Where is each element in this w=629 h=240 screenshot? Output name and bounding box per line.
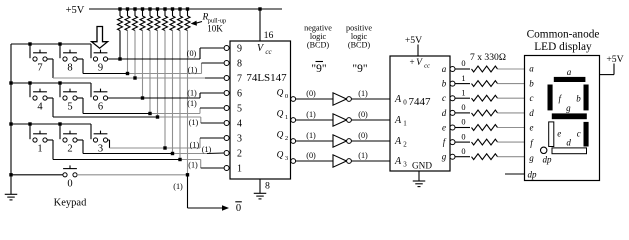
power +5V supply label (66, 5, 85, 16)
pin 8 GND wire U1 (259, 179, 261, 193)
wire drop bus to key 6 (90, 83, 92, 97)
label pin 5 U1 (237, 104, 242, 115)
svg-text:a: a (567, 67, 572, 77)
label (1) key2 b (202, 145, 212, 154)
svg-text:A: A (394, 136, 402, 147)
wire inverter 4 to A3 (351, 160, 390, 162)
pin e output bubble 7447 (450, 125, 455, 130)
wire dp stub (505, 173, 525, 175)
svg-text:5: 5 (67, 102, 72, 113)
svg-text:Common-anode: Common-anode (527, 29, 600, 41)
label pin 8 (265, 181, 270, 192)
wire key7 line (47, 59, 224, 78)
wire row bus 7-8-9 (11, 43, 91, 45)
svg-text:+5V: +5V (405, 35, 422, 46)
svg-text:b: b (529, 78, 534, 88)
pin a display label (529, 64, 534, 74)
inverter U2a (333, 93, 351, 105)
label Q2 U1 (277, 131, 289, 143)
label A1 7447 (394, 115, 407, 128)
label R pull-up 10K with arrow (191, 13, 227, 34)
svg-text:(1): (1) (187, 99, 197, 108)
resistor R8 pull-up 10K (170, 9, 175, 31)
node junction rail/pin16 (258, 7, 261, 10)
svg-text:7447: 7447 (409, 96, 432, 108)
segment e bar (off) (549, 122, 554, 147)
pin 3 input bubble U1 (224, 136, 229, 141)
svg-text:(1): (1) (187, 89, 197, 98)
svg-text:9: 9 (98, 63, 103, 74)
node junction R10/key0 (186, 173, 189, 176)
switch key 3 (93, 131, 107, 155)
label (0) inverter 3 output (358, 131, 368, 140)
svg-text:0: 0 (67, 178, 72, 189)
svg-text:8: 8 (265, 181, 270, 192)
pin 2 input bubble U1 (224, 151, 229, 156)
label (0) inverter 1 input (306, 89, 316, 98)
switch key 5 (63, 89, 77, 113)
pin 6 input bubble U1 (224, 91, 229, 96)
svg-text:4: 4 (237, 119, 242, 130)
wire resistor to display d (498, 112, 525, 114)
wire keypad left bus (10, 44, 12, 194)
pin f output bubble 7447 (450, 140, 455, 145)
node junction R1/key9 (118, 57, 121, 60)
svg-text:2: 2 (67, 144, 72, 155)
svg-text:d: d (529, 108, 534, 118)
pin Q2 output bubble U1 (291, 139, 296, 144)
label Q3 U1 (277, 151, 289, 163)
wire key9 line (108, 48, 224, 59)
svg-text:8: 8 (67, 63, 72, 74)
label segment b 7447 (442, 79, 447, 89)
label e segment (557, 129, 561, 139)
resistor R9 pull-up 10K (178, 9, 183, 31)
svg-text:e: e (557, 129, 561, 139)
svg-text:5: 5 (237, 104, 242, 115)
switch key 6 (93, 89, 107, 113)
node bus dot row123 col1 (28, 122, 31, 125)
svg-text:LED display: LED display (534, 41, 592, 53)
label pin 4 U1 (237, 119, 242, 130)
resistor R2 pull-up 10K (125, 9, 130, 31)
pin 8 input bubble U1 (224, 61, 229, 66)
segment g bar (552, 113, 587, 119)
node junction rail/R8 (171, 7, 174, 10)
node junction R5/key5 (148, 112, 151, 115)
node bus dot row456 col5 (58, 81, 61, 84)
label quoted 9-bar (311, 62, 326, 76)
svg-text:0: 0 (461, 118, 465, 127)
svg-text:7: 7 (37, 63, 42, 74)
label (1) key4 (189, 118, 199, 127)
resistor R5 pull-up 10K (148, 9, 153, 31)
wire column from R9 to key line (179, 31, 181, 160)
label 74LS147 (246, 72, 287, 84)
label (1) inverter 3 input (306, 131, 316, 140)
label (1) inverter 4 output (358, 151, 368, 160)
wire inverter 3 to A2 (351, 140, 390, 142)
ground U1 (254, 193, 267, 199)
pin 7 input bubble U1 (224, 76, 229, 81)
svg-text:(1): (1) (358, 89, 368, 98)
label segment a 7447 (442, 64, 447, 74)
wire drop bus to key 7 (29, 44, 31, 58)
resistor 330 segment d (472, 110, 498, 116)
svg-text:6: 6 (98, 102, 103, 113)
svg-text:b: b (576, 94, 581, 104)
svg-text:d: d (442, 108, 447, 118)
svg-text:A: A (394, 94, 402, 105)
inverter U2b (333, 114, 351, 126)
svg-text:(1): (1) (173, 182, 183, 191)
svg-text:2: 2 (237, 149, 242, 160)
pin a output bubble 7447 (450, 67, 455, 72)
wire column from R10 to key line (187, 31, 189, 175)
svg-text:1: 1 (37, 144, 42, 155)
svg-text:(0): (0) (187, 49, 197, 58)
label logic 1 segment c (461, 88, 465, 97)
label c segment (577, 129, 581, 139)
wire drop bus to key 1 (29, 124, 31, 139)
svg-text:e: e (530, 123, 534, 133)
svg-text:(0): (0) (306, 89, 316, 98)
svg-text:GND: GND (412, 161, 432, 171)
label Common-anode (527, 29, 600, 41)
label A3 7447 (394, 156, 407, 169)
label 7447 (409, 96, 432, 108)
svg-text:(BCD): (BCD) (348, 41, 371, 50)
pin g output bubble 7447 (450, 154, 455, 159)
wire key5 line (77, 98, 224, 114)
wire g 7447 to resistor (455, 156, 470, 158)
wire column from R5 to key line (149, 31, 151, 114)
node junction bus456/leftbus (9, 81, 12, 84)
node junction R7/key3 (163, 146, 166, 149)
pin d output bubble 7447 (450, 110, 455, 115)
label Q0 U1 (277, 89, 289, 101)
wire to 9-bar output (188, 175, 230, 211)
svg-text:7 x 330Ω: 7 x 330Ω (470, 52, 506, 63)
label segment g 7447 (442, 152, 447, 162)
svg-text:(1): (1) (189, 118, 199, 127)
node junction rail/R9 (178, 7, 181, 10)
wire f 7447 to resistor (455, 141, 470, 143)
svg-text:A: A (394, 156, 402, 167)
label (0) inverter 4 input (306, 151, 316, 160)
label d segment (566, 138, 571, 148)
wire row bus 1-2-3 (11, 123, 91, 125)
wire key6 line (108, 93, 224, 98)
label (1) key0 (173, 182, 183, 191)
label (1) key6 (187, 89, 197, 98)
wire display to +5V (600, 64, 615, 75)
label LED display (534, 41, 592, 53)
segment d bar (off) (552, 148, 587, 154)
label (0) inverter 2 output (358, 110, 368, 119)
label (1) inverter 1 output (358, 89, 368, 98)
svg-text:+5V: +5V (66, 5, 85, 16)
wire column from R7 to key line (164, 31, 166, 149)
svg-text:g: g (442, 152, 447, 162)
svg-text:(1): (1) (358, 151, 368, 160)
resistor R4 pull-up 10K (140, 9, 145, 31)
pin 5 input bubble U1 (224, 106, 229, 111)
resistor 330 segment a (472, 66, 498, 72)
pin Q0 output bubble U1 (291, 97, 296, 102)
wire drop bus to key 4 (29, 83, 31, 97)
label logic 0 segment d (461, 103, 465, 112)
label (1) key5 (187, 99, 197, 108)
wire resistor to display b (498, 83, 525, 85)
inverter U2d (333, 155, 351, 167)
node junction R9/key1 (178, 158, 181, 161)
label negative logic (BCD) (304, 24, 332, 50)
ground 7447 (413, 181, 426, 187)
node junction rail/R10 (186, 7, 189, 10)
wire key4 line (47, 98, 224, 123)
svg-text:0: 0 (236, 203, 241, 214)
node bus dot row456 col4 (28, 81, 31, 84)
label quoted 9 (352, 63, 367, 75)
wire Q3 to inverter (296, 160, 333, 162)
svg-text:1: 1 (285, 114, 288, 121)
op IC U1 74LS147 box (230, 41, 291, 179)
svg-text:(1): (1) (188, 160, 198, 169)
op IC U2 7447 box (390, 56, 450, 171)
node junction key0/leftbus (9, 173, 12, 176)
power +5V display label (606, 54, 623, 65)
segment c bar (584, 122, 589, 147)
label Vcc U1 (257, 43, 273, 56)
svg-text:g: g (529, 153, 534, 163)
label (1) key1 (188, 160, 198, 169)
svg-text:c: c (577, 129, 581, 139)
svg-text:0: 0 (461, 103, 465, 112)
svg-text:(1): (1) (306, 110, 316, 119)
node junction rail/R3 (133, 7, 136, 10)
svg-text:16: 16 (264, 30, 274, 41)
pressed key arrow (92, 27, 108, 49)
label logic 0 segment e (461, 118, 465, 127)
svg-text:cc: cc (265, 48, 272, 56)
switch key 7 (33, 50, 47, 74)
label a segment (567, 67, 572, 77)
wire drop bus to key 3 (90, 124, 92, 139)
resistor 330 segment c (472, 95, 498, 101)
ground (keypad) (5, 194, 18, 200)
svg-text:0: 0 (461, 132, 465, 141)
node bus dot row789 col8 (58, 42, 61, 45)
node junction R6/key4 (156, 115, 159, 118)
label Q1 U1 (277, 110, 289, 122)
node bus dot row123 col2 (58, 122, 61, 125)
label GND 7447 (412, 161, 432, 171)
node junction rail/R6 (156, 7, 159, 10)
resistor R7 pull-up 10K (163, 9, 168, 31)
svg-text:d: d (566, 138, 571, 148)
node junction R8/key2 (171, 152, 174, 155)
label pin 1 U1 (237, 164, 242, 175)
label segment c 7447 (442, 93, 446, 103)
svg-text:74LS147: 74LS147 (246, 72, 287, 84)
wire column from R8 to key line (172, 31, 174, 154)
svg-text:dp: dp (543, 155, 553, 165)
svg-text:cc: cc (424, 63, 430, 70)
pin f display label (530, 138, 534, 148)
node junction rail/R1 (118, 7, 121, 10)
switch key 8 (63, 50, 77, 74)
wire resistor to display e (498, 127, 525, 129)
label 7x330 (470, 52, 506, 63)
node junction rail/R7 (163, 7, 166, 10)
wire +5V rail (89, 8, 282, 10)
label logic 0 segment a (461, 59, 465, 68)
label pin 16 (264, 30, 274, 41)
switch key 4 (33, 89, 47, 113)
segment f bar (548, 85, 553, 111)
label pin 8 U1 (237, 59, 242, 70)
svg-text:Q: Q (277, 89, 284, 99)
svg-text:0: 0 (403, 99, 407, 107)
wire Q0 to inverter (296, 98, 333, 100)
switch key 1 (33, 131, 47, 155)
node junction R2/key8 (126, 72, 129, 75)
wire key 0 left lead (11, 174, 63, 176)
wire c 7447 to resistor (455, 97, 470, 99)
pin Q3 output bubble U1 (291, 159, 296, 164)
power +5V label 7447 (405, 35, 422, 46)
wire key1 line (47, 140, 224, 168)
resistor R3 pull-up 10K (133, 9, 138, 31)
resistor 330 segment g (472, 154, 498, 160)
label logic 0 segment g (461, 147, 465, 156)
svg-text:1: 1 (461, 88, 465, 97)
svg-text:c: c (442, 93, 446, 103)
wire drop bus to key 8 (59, 44, 61, 58)
pin 9 input bubble U1 (224, 46, 229, 51)
wire key2 line (77, 140, 224, 154)
node junction rail/R5 (148, 7, 151, 10)
wire resistor to display a (498, 68, 525, 70)
label pin 7 U1 (237, 74, 242, 85)
node bus dot row789 col7 (28, 42, 31, 45)
svg-text:8: 8 (237, 59, 242, 70)
node junction bus123/leftbus (9, 122, 12, 125)
wire key0 line (77, 174, 187, 176)
wire e 7447 to resistor (455, 127, 470, 129)
node junction R4/key6 (141, 96, 144, 99)
svg-text:(1): (1) (190, 140, 200, 149)
wire column from R4 to key line (142, 31, 144, 99)
wire row bus 4-5-6 (11, 82, 91, 84)
wire a 7447 to resistor (455, 68, 470, 70)
pin 16 Vcc wire U1 (259, 9, 261, 41)
pin Q1 output bubble U1 (291, 118, 296, 123)
svg-text:10K: 10K (207, 24, 223, 34)
switch key 9 (93, 50, 107, 74)
node junction rail/R2 (126, 7, 129, 10)
wire column from R3 to key line (134, 31, 136, 79)
pin 1 input bubble U1 (224, 166, 229, 171)
wire Q1 to inverter (296, 119, 333, 121)
label +Vcc 7447 (409, 57, 430, 70)
pin b display label (529, 78, 534, 88)
pin e display label (530, 123, 534, 133)
label b segment (576, 94, 581, 104)
inverter U2c (333, 135, 351, 147)
svg-text:1: 1 (403, 120, 407, 128)
pin dp display label (528, 170, 538, 180)
svg-text:+: + (409, 57, 414, 67)
wire drop bus to key 2 (59, 124, 61, 139)
svg-text:A: A (394, 115, 402, 126)
svg-text:1: 1 (461, 74, 465, 83)
wire key3 line (108, 138, 224, 148)
svg-text:(BCD): (BCD) (307, 41, 330, 50)
node junction rail/R4 (141, 7, 144, 10)
svg-text:Q: Q (277, 110, 284, 120)
svg-text:3: 3 (98, 144, 103, 155)
label A0 7447 (394, 94, 407, 107)
label A2 7447 (394, 136, 407, 149)
label positive logic (BCD) (346, 24, 372, 50)
wire +5V to 7447 (417, 45, 419, 57)
pin b output bubble 7447 (450, 81, 455, 86)
switch key 2 (63, 131, 77, 155)
label segment e 7447 (442, 123, 446, 133)
pin 4 input bubble U1 (224, 121, 229, 126)
pin g display label (529, 153, 534, 163)
pin GND wire 7447 (418, 171, 420, 181)
svg-text:2: 2 (403, 141, 407, 149)
label pin 2 U1 (237, 149, 242, 160)
segment a bar (554, 77, 586, 82)
svg-text:0: 0 (461, 59, 465, 68)
wire resistor to display f (498, 141, 525, 143)
svg-text:(0): (0) (358, 110, 368, 119)
wire key8 line (77, 59, 224, 74)
wire drop bus to key 5 (59, 83, 61, 97)
label 0-bar (235, 202, 242, 214)
svg-text:a: a (442, 64, 447, 74)
resistor R10 pull-up 10K (185, 9, 190, 31)
wire inverter 2 to A1 (351, 119, 390, 121)
svg-text:9: 9 (237, 44, 242, 55)
svg-text:"9": "9" (352, 63, 367, 75)
svg-text:7: 7 (237, 74, 242, 85)
svg-text:1: 1 (237, 164, 242, 175)
svg-text:Q: Q (277, 151, 284, 161)
label (0) key9 (187, 49, 197, 58)
label (1) key3 (190, 140, 200, 149)
wire d 7447 to resistor (455, 112, 470, 114)
svg-text:0: 0 (461, 147, 465, 156)
wire column from R1 to key line (119, 31, 121, 60)
svg-text:a: a (529, 64, 534, 74)
wire inverter 1 to A0 (351, 98, 390, 100)
wire resistor to display g (498, 156, 525, 158)
resistor 330 segment e (472, 125, 498, 131)
label logic 1 segment b (461, 74, 465, 83)
svg-text:(1): (1) (202, 145, 212, 154)
label (1) inverter 2 input (306, 110, 316, 119)
svg-text:Keypad: Keypad (54, 198, 87, 209)
svg-text:+5V: +5V (606, 54, 623, 65)
svg-text:b: b (442, 79, 447, 89)
svg-text:dp: dp (528, 170, 538, 180)
label segment d 7447 (442, 108, 447, 118)
